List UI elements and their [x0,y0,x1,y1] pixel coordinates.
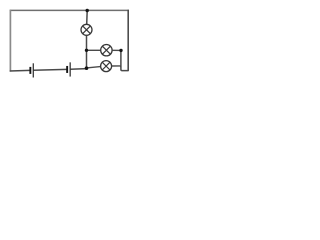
wire branch upper left stub (node D2 to lamp L2) [87,49,101,51]
wire branch lower left stub (node D3 to lamp L3) [87,67,101,68]
lamp L3 cross stroke 1 [102,62,110,70]
lamp L1 (circle) [81,24,92,35]
battery cell B2 positive plate (long thin) [70,62,71,76]
wire top (node A rail) [10,9,129,11]
wire bottom segment from left corner to battery B1 [10,69,30,72]
lamp L2 cross stroke 2 [102,46,110,54]
wire mid vertical upper stub (node A to lamp L1) [86,10,89,24]
lamp L3 (circle) [101,61,112,72]
junction dot D1 (top rail to mid vertical) [86,9,89,12]
lamp L1 cross stroke 1 [83,26,91,34]
lamp L2 (circle) [101,45,112,56]
wire branch lower right stub (lamp L3 to corner) [112,66,121,67]
junction dot D2 (mid vertical to upper branch) [85,49,88,52]
battery cell B2 negative plate (short thick) [66,66,68,73]
wire bottom segment between battery cells [33,68,66,71]
wire branch upper right stub (lamp L2 to node D4) [112,49,121,51]
battery cell B1 negative plate (short thick) [29,67,31,74]
lamp L3 cross stroke 2 [102,62,110,70]
junction dot D3 (battery wire / mid vertical / lower branch) [85,66,89,70]
wire mid vertical lower (lamp L1 to node D3) [86,36,88,69]
lamp L1 cross stroke 2 [83,26,91,34]
wire right inner vertical (node D4 down to bottom jog) [121,50,129,70]
wire right [127,10,129,71]
wire left [9,10,11,72]
junction dot D4 (upper branch to right inner vertical) [119,49,122,52]
wire bottom segment from battery B2 to node D3 [70,68,86,71]
battery cell B1 positive plate (long thin) [33,63,34,77]
lamp L2 cross stroke 1 [102,46,110,54]
